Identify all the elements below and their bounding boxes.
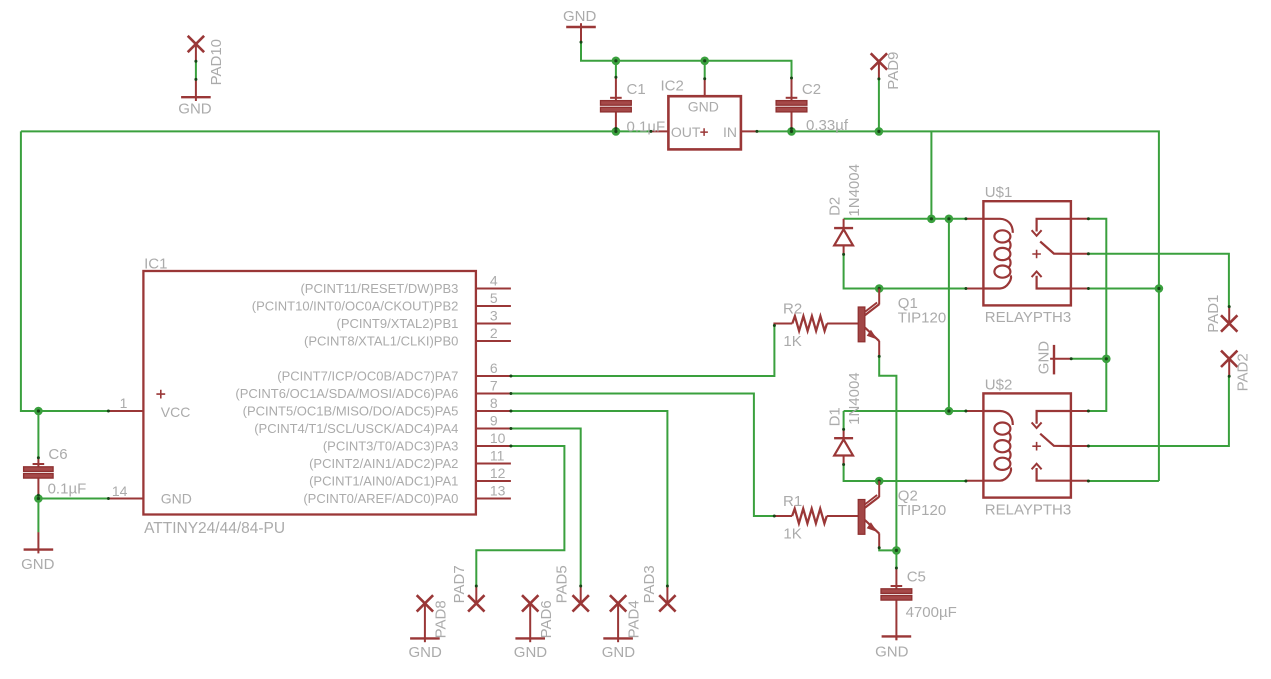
svg-text:2: 2	[490, 325, 498, 341]
PAD2 stub	[1228, 359, 1230, 377]
diode D1 1N4004	[834, 437, 853, 439]
svg-text:GND: GND	[602, 644, 636, 661]
junction Q1 collector	[875, 284, 884, 293]
relay U$2 box	[983, 393, 1071, 497]
relay U$2 plus mark	[1032, 442, 1041, 451]
pad PAD2	[1221, 351, 1237, 367]
svg-text:GND: GND	[1036, 341, 1053, 375]
PAD7 stub	[475, 586, 477, 604]
svg-text:C1: C1	[627, 81, 646, 98]
svg-text:9: 9	[490, 413, 498, 429]
svg-text:(PCINT6/OC1A/SDA/MOSI/ADC6)PA6: (PCINT6/OC1A/SDA/MOSI/ADC6)PA6	[235, 386, 458, 401]
svg-text:PAD3: PAD3	[641, 565, 658, 603]
wire Q1 emitter run	[879, 356, 896, 550]
wire U$2 common to PAD2	[1088, 376, 1229, 446]
diode D2 1N4004	[834, 227, 853, 229]
ground (PAD10)	[181, 96, 211, 98]
wire pin6 to R2	[511, 325, 775, 376]
svg-text:GND: GND	[875, 644, 909, 661]
svg-text:VCC: VCC	[161, 404, 191, 420]
wire PAD10 net	[195, 61, 197, 79]
svg-text:0.1µF: 0.1µF	[48, 481, 87, 498]
svg-text:PAD10: PAD10	[208, 39, 225, 85]
svg-text:0.1µF: 0.1µF	[627, 118, 666, 135]
PAD4 lead to ground	[617, 603, 619, 638]
transistor Q1 TIP120	[858, 307, 865, 342]
capacitor C5 leads	[895, 568, 897, 589]
pad PAD10	[188, 36, 204, 52]
junction VCC/C6	[34, 407, 43, 416]
diode D1 top lead	[843, 429, 845, 438]
svg-text:TIP120: TIP120	[898, 309, 946, 326]
svg-text:1N4004: 1N4004	[846, 372, 863, 425]
wire PAD9 drop	[878, 79, 880, 131]
svg-text:GND: GND	[178, 100, 212, 117]
relay U$1 coil	[983, 219, 1012, 233]
svg-text:3: 3	[490, 308, 498, 324]
IC2 pins	[651, 130, 669, 132]
wire U$1 NO to U$2 NO with GND tap	[1088, 219, 1106, 411]
svg-text:PAD2: PAD2	[1235, 353, 1252, 391]
junction C1 bottom	[612, 127, 621, 136]
svg-text:(PCINT8/XTAL1/CLKI)PB0: (PCINT8/XTAL1/CLKI)PB0	[304, 334, 458, 349]
wire bus tap to relay top row	[930, 131, 932, 218]
resistor R2	[792, 316, 827, 331]
wire to GND symbol	[37, 499, 39, 533]
diode D2 top lead	[843, 219, 845, 228]
svg-text:PAD7: PAD7	[451, 565, 468, 603]
svg-text:U$2: U$2	[985, 376, 1013, 393]
svg-text:IN: IN	[723, 124, 737, 140]
wire pin8 to PAD3	[511, 411, 668, 586]
svg-text:(PCINT7/ICP/OC0B/ADC7)PA7: (PCINT7/ICP/OC0B/ADC7)PA7	[277, 369, 458, 384]
relay U$2 switch contact	[1037, 411, 1071, 424]
IC1 right pins	[476, 288, 511, 290]
svg-text:13: 13	[490, 483, 506, 499]
svg-text:(PCINT0/AREF/ADC0)PA0: (PCINT0/AREF/ADC0)PA0	[303, 491, 458, 506]
svg-text:(PCINT1/AIN0/ADC1)PA1: (PCINT1/AIN0/ADC1)PA1	[309, 474, 458, 489]
resistor R1 leads	[774, 515, 792, 517]
relay U$1 box	[983, 201, 1071, 305]
wire net VCCIN top rail	[581, 42, 792, 78]
PAD1 stub	[1228, 306, 1230, 323]
svg-text:(PCINT11/RESET/DW)PB3: (PCINT11/RESET/DW)PB3	[300, 281, 458, 296]
relay U$1 pins	[966, 218, 984, 220]
wire Q2 emitter tie	[879, 548, 896, 551]
pad PAD5	[573, 595, 589, 611]
IC1 left pins (VCC, GND)	[108, 410, 143, 412]
resistor R2 leads	[774, 324, 792, 326]
wire to C5	[895, 550, 897, 568]
svg-text:(PCINT2/AIN1/ADC2)PA2: (PCINT2/AIN1/ADC2)PA2	[309, 456, 458, 471]
pad PAD4	[610, 595, 626, 611]
ground (PAD6)	[515, 637, 545, 639]
junction right vertical	[1155, 284, 1164, 293]
wire net +5V bus left segment	[21, 130, 651, 132]
svg-text:(PCINT10/INT0/OC0A/CKOUT)PB2: (PCINT10/INT0/OC0A/CKOUT)PB2	[252, 299, 459, 314]
svg-text:PAD6: PAD6	[538, 600, 555, 638]
svg-text:PAD1: PAD1	[1205, 295, 1222, 333]
svg-text:GND: GND	[563, 8, 597, 25]
svg-text:1K: 1K	[783, 333, 801, 350]
junction Q2 collector	[875, 477, 884, 486]
wire IC2 GND branch	[704, 61, 706, 79]
IC2 plus mark	[700, 128, 708, 136]
pin-wire connection marks	[649, 130, 652, 133]
junction PAD9	[875, 127, 884, 136]
pad PAD7	[468, 595, 484, 611]
ground (top rail)	[566, 26, 596, 28]
wire left vertical to VCC pin	[21, 131, 109, 411]
svg-text:GND: GND	[21, 556, 55, 573]
wire VCC to C6	[37, 411, 39, 458]
svg-text:0.33µf: 0.33µf	[806, 117, 849, 134]
IC1 ATTINY24/44/84-PU box	[143, 271, 476, 515]
relay U$1 switch contact	[1037, 219, 1071, 232]
svg-text:RELAYPTH3: RELAYPTH3	[985, 501, 1071, 518]
svg-text:PAD5: PAD5	[554, 565, 571, 603]
pad PAD6	[522, 595, 538, 611]
svg-text:C5: C5	[907, 568, 926, 585]
svg-text:GND: GND	[514, 644, 548, 661]
svg-text:11: 11	[490, 448, 505, 464]
wire pin9 to PAD5	[511, 429, 581, 586]
capacitor C1 leads	[615, 77, 617, 101]
ground (relays, rotated)	[1053, 345, 1055, 375]
junction relay row A	[927, 215, 936, 224]
PAD6 lead to ground	[529, 603, 531, 638]
svg-text:1N4004: 1N4004	[846, 164, 863, 217]
capacitor C1	[610, 97, 622, 99]
svg-text:ATTINY24/44/84-PU: ATTINY24/44/84-PU	[144, 520, 285, 537]
svg-text:R1: R1	[783, 493, 802, 510]
wire pin7 to R1	[511, 394, 774, 517]
PAD10 leads	[195, 44, 197, 61]
pad PAD3	[659, 595, 675, 611]
junction C5 top	[892, 546, 901, 555]
capacitor C6 leads	[37, 458, 39, 468]
svg-text:12: 12	[490, 465, 506, 481]
svg-text:RELAYPTH3: RELAYPTH3	[985, 309, 1071, 326]
wire U$1 common to PAD1	[1088, 254, 1229, 307]
junction relay GND	[1102, 355, 1111, 364]
svg-text:TIP120: TIP120	[898, 502, 946, 519]
ground (PAD8)	[410, 637, 440, 639]
svg-text:C2: C2	[802, 81, 821, 98]
capacitor C2 leads	[791, 78, 793, 101]
wire U$1 NC to vertical	[1088, 288, 1159, 290]
wire D1 bottom to U$2 coil bottom	[844, 464, 966, 481]
wire C1 bottom tie	[615, 128, 617, 131]
wire GND tap	[1071, 358, 1106, 360]
diode D2 bottom lead	[843, 245, 845, 254]
PAD8 lead to ground	[424, 603, 426, 638]
svg-text:GND: GND	[688, 99, 719, 115]
svg-text:7: 7	[490, 378, 498, 394]
pad PAD8	[417, 595, 433, 611]
PAD5 stub	[580, 586, 582, 604]
svg-text:D2: D2	[826, 197, 843, 216]
svg-text:GND: GND	[409, 644, 443, 661]
wire C6 to GND pin	[38, 495, 108, 499]
wire pin10 to PAD7	[476, 446, 564, 586]
ground (C6)	[24, 548, 54, 550]
svg-text:5: 5	[490, 290, 498, 306]
wire net VIN right segment + long vertical	[758, 131, 1159, 481]
junction IC2 gnd	[700, 57, 709, 66]
junction GND/C6	[34, 494, 43, 503]
IC1 plus mark (VCC)	[156, 390, 165, 399]
pad PAD1	[1221, 315, 1237, 331]
svg-text:(PCINT9/XTAL2)PB1: (PCINT9/XTAL2)PB1	[337, 316, 459, 331]
capacitor C6	[33, 463, 45, 465]
svg-text:(PCINT4/T1/SCL/USCK/ADC4)PA4: (PCINT4/T1/SCL/USCK/ADC4)PA4	[254, 421, 458, 436]
svg-text:10: 10	[490, 430, 506, 446]
wire D2 bottom to U$1 coil bottom	[844, 254, 966, 288]
svg-text:IC2: IC2	[661, 78, 684, 95]
svg-text:PAD9: PAD9	[885, 52, 902, 90]
wire C2 bottom tie	[791, 128, 793, 131]
wire U$2 NC to vertical	[1088, 480, 1159, 482]
svg-text:R2: R2	[783, 301, 802, 318]
wire D1 top lead	[843, 411, 845, 429]
svg-text:(PCINT5/OC1B/MISO/DO/ADC5)PA5: (PCINT5/OC1B/MISO/DO/ADC5)PA5	[243, 404, 459, 419]
relay U$2 pins	[966, 410, 984, 412]
IC2 regulator box	[668, 96, 741, 149]
capacitor C5	[891, 585, 903, 587]
junction C2 bottom	[787, 127, 796, 136]
relay U$2 coil	[983, 411, 1012, 425]
ground (C5)	[882, 635, 912, 637]
svg-text:1: 1	[120, 395, 128, 411]
capacitor C2	[786, 97, 798, 99]
junction C1 top	[612, 57, 621, 66]
ground (PAD4)	[603, 637, 633, 639]
pad PAD9	[871, 53, 887, 69]
PAD3 stub	[666, 586, 668, 604]
svg-text:8: 8	[490, 395, 498, 411]
PAD9 stub	[878, 62, 880, 79]
junction relay row B	[945, 215, 954, 224]
diode D1 bottom lead	[843, 456, 845, 465]
svg-text:1K: 1K	[783, 526, 801, 543]
relay U$1 plus mark	[1032, 250, 1041, 259]
svg-text:4: 4	[490, 273, 498, 289]
wire relay U$1 coil top row	[844, 218, 966, 220]
wire C1 top branch	[615, 61, 617, 77]
svg-text:PAD4: PAD4	[626, 600, 643, 638]
svg-text:C6: C6	[48, 446, 67, 463]
wire relay U$2 coil top row	[844, 410, 966, 412]
resistor R1	[792, 509, 827, 524]
svg-text:(PCINT3/T0/ADC3)PA3: (PCINT3/T0/ADC3)PA3	[323, 439, 459, 454]
svg-text:D1: D1	[826, 407, 843, 426]
transistor Q2 TIP120	[858, 500, 865, 535]
wire vertical U$1-row to U$2-row	[948, 219, 950, 411]
svg-text:14: 14	[112, 483, 128, 499]
svg-text:PAD8: PAD8	[433, 600, 450, 638]
svg-text:OUT: OUT	[671, 124, 701, 140]
svg-text:4700µF: 4700µF	[906, 604, 957, 621]
svg-text:GND: GND	[161, 490, 192, 506]
svg-text:6: 6	[490, 360, 498, 376]
junction U$2 coil top	[945, 407, 954, 416]
svg-text:U$1: U$1	[985, 184, 1013, 201]
svg-text:IC1: IC1	[144, 256, 167, 273]
